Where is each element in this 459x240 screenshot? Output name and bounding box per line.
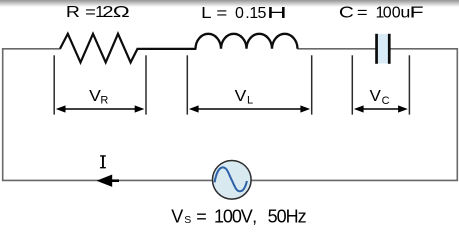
svg-text:R: R	[100, 95, 108, 107]
svg-text:L: L	[201, 5, 212, 22]
wire bottom: right corner to source	[251, 179, 458, 181]
svg-text:50Hz: 50Hz	[268, 206, 307, 226]
VC arrow	[354, 105, 408, 112]
VR arrow	[56, 105, 145, 112]
svg-text:V: V	[235, 88, 247, 105]
svg-text:Ω: Ω	[113, 4, 130, 21]
svg-text:=: =	[85, 4, 96, 21]
capacitor C left plate	[375, 34, 378, 64]
label R value	[66, 4, 130, 21]
label VR	[89, 88, 108, 107]
svg-text:V: V	[370, 88, 382, 105]
inductor L	[196, 34, 298, 49]
svg-text:H: H	[267, 5, 287, 22]
svg-text:V: V	[171, 206, 183, 226]
label VC	[370, 88, 390, 107]
capacitor C dielectric fill	[378, 34, 389, 64]
svg-text:F: F	[410, 5, 424, 22]
svg-text:C: C	[339, 5, 354, 22]
svg-text:=: =	[196, 206, 207, 226]
source VS sine wave	[215, 167, 247, 191]
svg-text:S: S	[184, 214, 191, 226]
resistor R	[60, 34, 138, 63]
svg-text:,: ,	[252, 206, 257, 226]
wire top: left corner to resistor	[2, 48, 61, 50]
svg-text:=: =	[357, 5, 368, 22]
VR measurement tick right	[145, 55, 147, 114]
label C value	[339, 5, 424, 22]
wire top: capacitor to right corner	[390, 48, 458, 50]
svg-text:5: 5	[258, 5, 267, 22]
svg-text:=: =	[216, 5, 227, 22]
svg-text:0: 0	[383, 5, 392, 22]
label VL	[235, 88, 253, 107]
VR measurement tick left	[53, 55, 55, 114]
wire top: inductor to capacitor	[297, 48, 375, 50]
VL measurement tick left	[186, 55, 188, 114]
wire left side	[2, 49, 4, 181]
VL arrow	[189, 105, 310, 112]
wire top: resistor to inductor	[137, 48, 197, 50]
label I	[100, 155, 106, 168]
svg-text:L: L	[247, 95, 253, 107]
label VS value	[171, 206, 306, 226]
svg-text:100V: 100V	[214, 206, 253, 226]
VL measurement tick right	[311, 55, 313, 114]
svg-text:0: 0	[235, 5, 244, 22]
VC measurement tick right	[408, 55, 410, 114]
svg-text:C: C	[382, 95, 390, 107]
source VS circle	[213, 161, 252, 200]
wire right side	[456, 49, 458, 181]
label L value	[201, 5, 287, 22]
top gradient border	[0, 0, 459, 7]
current arrow I	[97, 175, 120, 187]
VC measurement tick left	[351, 55, 353, 114]
svg-text:R: R	[66, 4, 80, 21]
capacitor C right plate	[388, 34, 391, 64]
wire bottom: source to left corner	[2, 179, 213, 181]
